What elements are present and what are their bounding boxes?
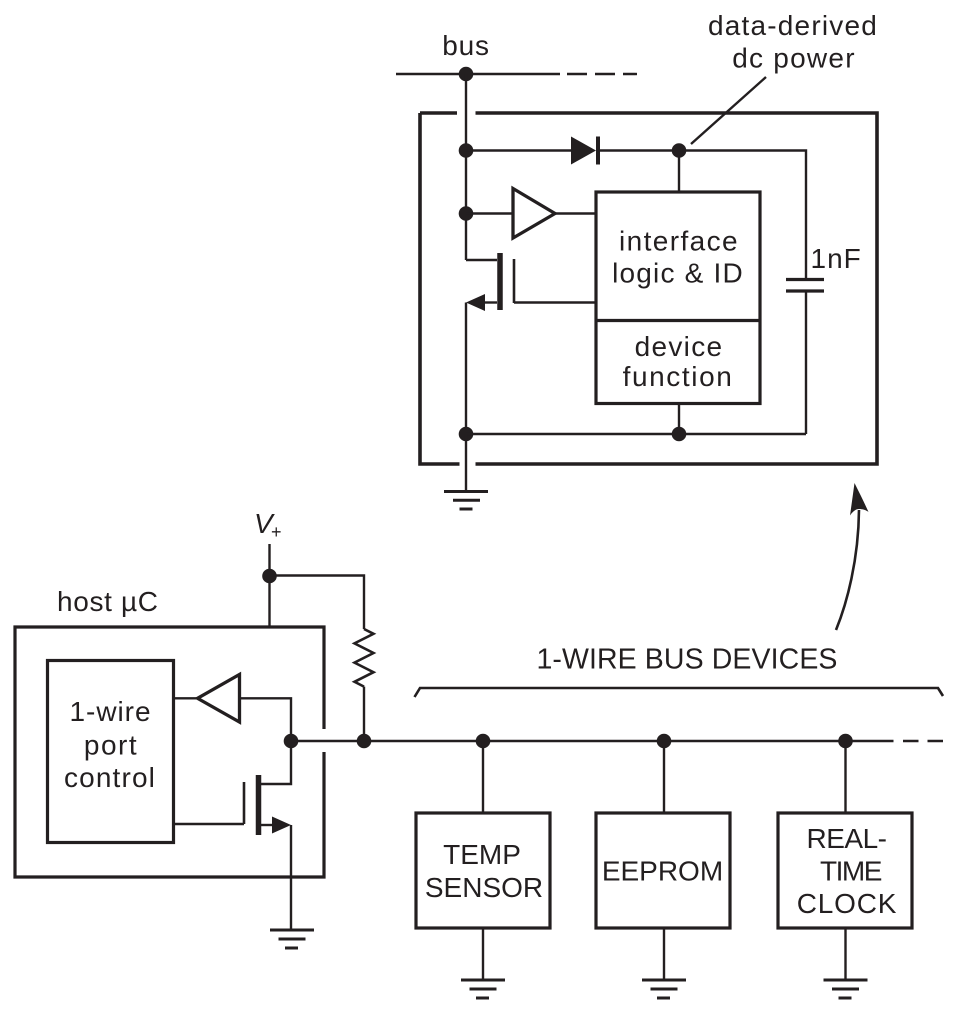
channel bar	[497, 253, 503, 310]
wire V+ stub	[268, 544, 270, 627]
ground (rtc)	[824, 980, 868, 998]
svg-text:device: device	[635, 331, 724, 362]
wire device function to ground rail	[678, 404, 680, 435]
net label V+	[254, 508, 282, 542]
gate line	[243, 782, 246, 824]
wire port control to buffer tip	[174, 697, 198, 699]
wire bus top dashed continuation	[567, 73, 637, 75]
svg-text:REAL-: REAL-	[807, 823, 887, 854]
wire bus to temp sensor	[482, 741, 484, 813]
source lead with arrow	[261, 824, 273, 826]
wire bus drop into device	[465, 74, 467, 260]
wire source to ground	[290, 825, 292, 930]
wire rtc to ground	[844, 928, 846, 980]
svg-text:SENSOR: SENSOR	[425, 872, 543, 903]
wire device ground stub	[465, 434, 467, 492]
label pointer line data-derived dc power	[691, 77, 766, 144]
svg-text:1nF: 1nF	[811, 243, 862, 274]
svg-text:CLOCK: CLOCK	[797, 888, 897, 919]
svg-text:host µC: host µC	[57, 586, 159, 617]
svg-text:port: port	[84, 730, 138, 761]
svg-text:+: +	[271, 522, 282, 542]
svg-text:control: control	[64, 762, 156, 793]
wire power node to capacitor branch	[679, 151, 806, 280]
svg-text:bus: bus	[442, 30, 490, 61]
interface logic & ID / device function box	[596, 192, 760, 404]
svg-text:TEMP: TEMP	[443, 839, 521, 870]
gate lead to interface box	[514, 301, 596, 303]
wire power node down to interface box	[678, 151, 680, 193]
wire bus top solid	[396, 73, 560, 75]
wire bus to real-time clock	[844, 741, 846, 813]
channel bar	[256, 775, 262, 835]
transistor Q1 (device pulldown MOSFET)	[466, 253, 596, 311]
wire 1-wire bus dashed continuation	[903, 740, 945, 742]
ground (eeprom)	[642, 980, 686, 998]
node host bus junction	[284, 734, 299, 749]
node diode input junction	[459, 143, 474, 158]
wire source to ground rail	[465, 303, 467, 435]
svg-text:TIME: TIME	[820, 856, 882, 887]
1-wire device outer box	[420, 113, 877, 464]
buffer U1 (device receiver)	[513, 189, 555, 239]
node dc power junction	[672, 143, 687, 158]
svg-text:function: function	[623, 361, 734, 392]
node ground rail centre junction	[672, 427, 687, 442]
drain lead	[261, 741, 291, 784]
wire ground rail	[466, 433, 806, 435]
wire temp sensor to ground	[482, 928, 484, 980]
svg-text:1-wire: 1-wire	[70, 696, 152, 727]
svg-text:logic & ID: logic & ID	[612, 258, 744, 289]
wire eeprom to ground	[663, 928, 665, 980]
resistor R1 pull-up	[355, 629, 374, 687]
svg-text:data-derived: data-derived	[708, 10, 878, 41]
node temp sensor junction	[476, 734, 491, 749]
node ground rail left junction	[459, 427, 474, 442]
svg-text:dc power: dc power	[732, 43, 856, 74]
node bus tap junction	[459, 67, 474, 82]
ground (temp sensor)	[461, 980, 505, 998]
wire to buffer	[466, 212, 512, 214]
wire to diode	[466, 149, 571, 151]
node rtc junction	[838, 734, 853, 749]
wire 1-wire bus	[291, 740, 894, 742]
bracket over bus devices	[415, 688, 944, 697]
gate line	[513, 259, 516, 303]
wire resistor to bus	[363, 687, 365, 741]
wire capacitor bottom to ground rail	[805, 291, 807, 434]
transistor Q2 (host pulldown MOSFET)	[174, 741, 292, 835]
1-wire port control box	[48, 661, 174, 843]
temp sensor box	[416, 813, 550, 928]
node resistor bus junction	[357, 734, 372, 749]
svg-text:EEPROM: EEPROM	[602, 856, 723, 887]
gate lead	[174, 823, 245, 825]
wire bus to eeprom	[663, 741, 665, 813]
capacitor C1 1nF	[786, 280, 824, 292]
diode D1	[571, 137, 598, 165]
wire buffer input from bus	[240, 698, 292, 741]
ground (device)	[444, 492, 488, 510]
host microcontroller box	[15, 627, 324, 877]
node V+ junction	[262, 569, 277, 584]
wire V+ to resistor	[270, 576, 365, 630]
wire diode to power node	[598, 149, 679, 151]
eeprom box	[596, 813, 730, 928]
node buffer input junction	[459, 206, 474, 221]
real-time clock box	[778, 813, 912, 928]
callout curved arrow to device box	[836, 483, 869, 630]
buffer U2 (host receiver, points left)	[198, 675, 240, 723]
node eeprom junction	[657, 734, 672, 749]
svg-text:1-WIRE BUS DEVICES: 1-WIRE BUS DEVICES	[536, 644, 837, 676]
drain lead	[466, 259, 497, 261]
ground (host)	[270, 930, 314, 948]
wire buffer to interface box	[555, 212, 596, 214]
svg-text:interface: interface	[619, 226, 739, 257]
source lead with arrow	[484, 301, 497, 303]
